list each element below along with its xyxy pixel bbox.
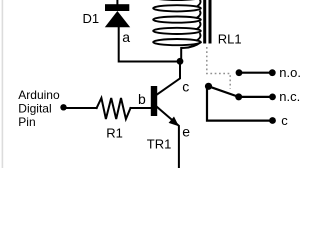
svg-text:a: a — [122, 29, 130, 45]
svg-text:Pin: Pin — [18, 115, 35, 129]
svg-text:TR1: TR1 — [147, 137, 172, 152]
svg-text:R1: R1 — [106, 125, 123, 140]
svg-text:c: c — [182, 79, 189, 95]
svg-text:Digital: Digital — [18, 102, 51, 116]
svg-text:D1: D1 — [83, 11, 100, 26]
svg-text:n.c.: n.c. — [279, 89, 300, 104]
svg-text:c: c — [281, 113, 288, 128]
svg-text:RL1: RL1 — [218, 31, 242, 46]
svg-text:n.o.: n.o. — [279, 65, 301, 80]
svg-text:b: b — [138, 91, 146, 107]
svg-text:e: e — [182, 124, 190, 140]
svg-text:Arduino: Arduino — [18, 88, 60, 102]
